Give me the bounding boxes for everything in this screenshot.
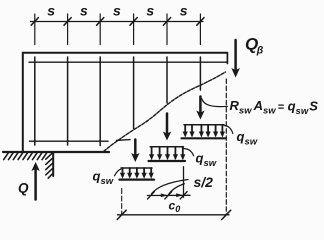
svg-text:RswAsw=qswS: RswAsw=qswS (230, 98, 319, 117)
svg-text:c0: c0 (169, 199, 181, 215)
svg-text:Q: Q (18, 181, 29, 196)
svg-text:s: s (146, 2, 154, 18)
svg-text:s: s (113, 2, 121, 18)
svg-text:qsw: qsw (237, 129, 258, 148)
svg-text:s: s (180, 2, 188, 18)
svg-text:s/2: s/2 (194, 174, 214, 190)
svg-text:qsw: qsw (196, 151, 217, 170)
svg-text:Qβ: Qβ (245, 35, 264, 57)
svg-text:s: s (80, 2, 88, 18)
svg-text:s: s (47, 2, 55, 18)
svg-text:qsw: qsw (93, 169, 114, 188)
